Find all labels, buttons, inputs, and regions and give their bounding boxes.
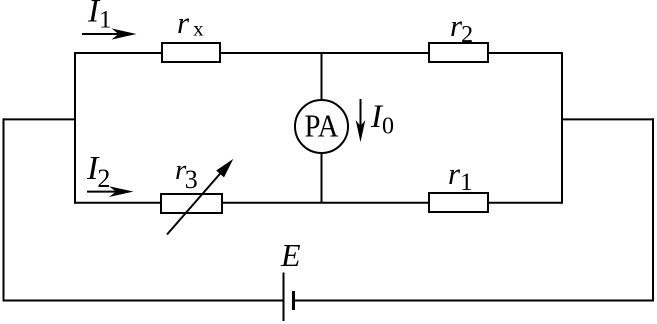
r3 adjustment arrow <box>167 159 233 235</box>
resistor R3 variable <box>161 194 222 213</box>
svg-text:r2: r2 <box>450 8 473 48</box>
battery E short plate <box>292 291 295 310</box>
svg-text:r1: r1 <box>448 156 473 196</box>
wire center branch vertical <box>321 53 323 203</box>
svg-text:I0: I0 <box>370 99 394 140</box>
wire outer left vertical <box>3 118 5 301</box>
wire middle horizontal <box>74 202 562 204</box>
battery E long plate <box>283 273 285 322</box>
resistor Rx <box>162 43 220 62</box>
wire left stub <box>3 118 76 120</box>
svg-text:I1: I1 <box>87 0 112 34</box>
wire right stub <box>562 118 654 120</box>
wire top horizontal <box>74 52 562 54</box>
svg-text:r3: r3 <box>175 154 198 194</box>
svg-text:PA: PA <box>305 108 339 144</box>
svg-text:rx: rx <box>177 5 204 41</box>
wire outer right vertical <box>652 118 654 301</box>
arrow I1 <box>82 28 137 39</box>
wire bottom right segment <box>294 300 654 302</box>
svg-text:I2: I2 <box>86 150 110 193</box>
resistor R1 <box>429 193 488 212</box>
svg-text:E: E <box>280 237 301 273</box>
arrow I0 <box>356 99 366 142</box>
wire left inner vertical <box>74 52 76 204</box>
wire right inner vertical <box>561 52 563 204</box>
ammeter PA <box>295 100 348 153</box>
resistor R2 <box>429 43 488 62</box>
wire bottom left segment <box>3 300 284 302</box>
arrow I2 <box>87 186 134 197</box>
